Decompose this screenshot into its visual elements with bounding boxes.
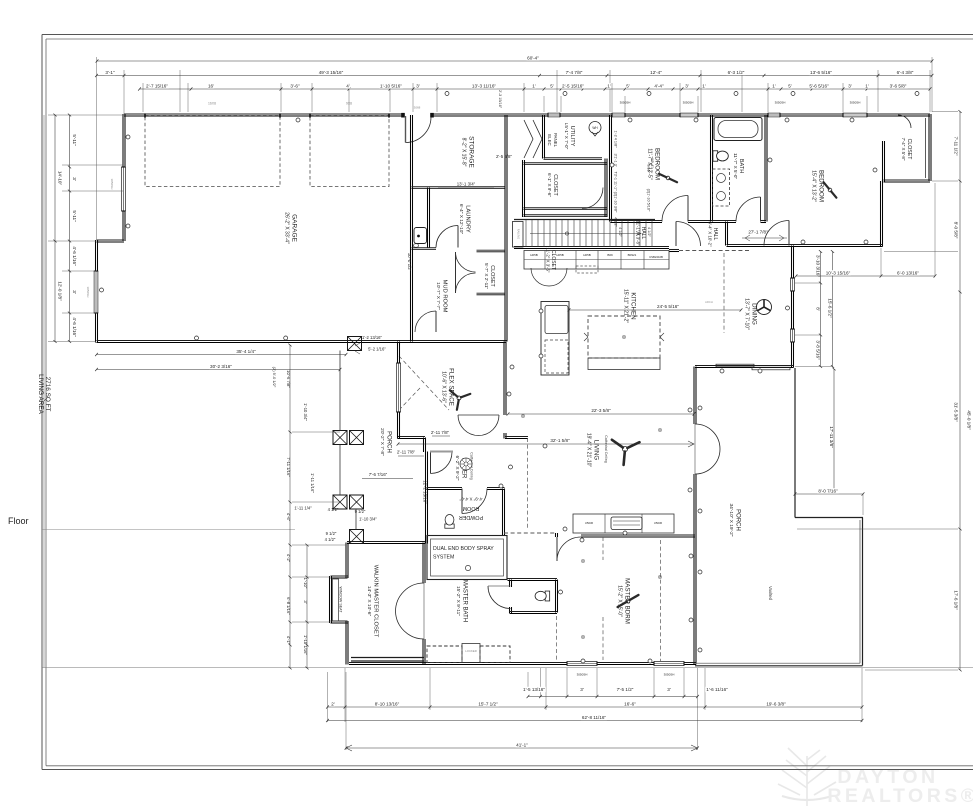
bottom dim row small	[528, 696, 698, 698]
svg-text:7'-4" X 5'-8": 7'-4" X 5'-8"	[901, 138, 906, 161]
foyer north wall stub	[505, 436, 528, 438]
svg-text:6'-0 13/16": 6'-0 13/16"	[897, 270, 919, 275]
walkin closet double doors	[396, 583, 425, 639]
svg-text:1': 1'	[607, 83, 611, 88]
utility west wall	[542, 115, 544, 159]
svg-text:4 1/2": 4 1/2"	[614, 217, 618, 227]
svg-text:32'-1 5/8": 32'-1 5/8"	[550, 438, 570, 443]
hall tiny dims column	[614, 130, 655, 237]
flex diagonal dashed	[399, 356, 449, 410]
dim row 2	[97, 75, 933, 77]
svg-text:3'-4" X 10'-2": 3'-4" X 10'-2"	[707, 221, 712, 247]
dim 10-3 and 6-0	[796, 275, 935, 277]
wc door arc	[488, 586, 511, 609]
porch right dim 8-0	[795, 493, 863, 495]
svg-text:17'-6 1/8": 17'-6 1/8"	[954, 590, 959, 610]
window seat bench	[333, 579, 339, 621]
living outlets	[499, 365, 692, 638]
dining side dim col a	[820, 252, 822, 367]
garage outlets	[100, 118, 301, 340]
flex ceiling fan	[457, 396, 461, 400]
svg-text:RAILING: RAILING	[517, 229, 521, 239]
svg-text:LIVING: LIVING	[593, 440, 600, 460]
walkin closet north wall	[347, 541, 425, 543]
svg-text:3068: 3068	[414, 106, 421, 110]
window tiny labels top	[620, 101, 861, 105]
dim 35-4	[97, 354, 347, 356]
svg-text:2'-5 5/8": 2'-5 5/8"	[496, 154, 513, 159]
svg-text:3': 3'	[580, 687, 584, 692]
svg-text:L5'-1" X 7'-0": L5'-1" X 7'-0"	[564, 123, 569, 150]
wc toilet	[535, 591, 550, 601]
svg-text:1': 1'	[772, 83, 776, 88]
hall closet north wall	[524, 162, 608, 164]
powder north wall east segment	[487, 487, 505, 489]
watermark tree logo	[778, 748, 836, 806]
svg-text:4'-6 1/16": 4'-6 1/16"	[72, 317, 77, 337]
porch right east edge lower	[862, 518, 864, 666]
dining side dim col b	[832, 252, 834, 367]
flex south wall	[398, 436, 426, 438]
kitchen island	[588, 316, 660, 358]
closet2 door arc	[898, 115, 911, 128]
bedroom1 south wall east segment	[688, 220, 712, 222]
garage/south wall of garage and flex top	[97, 340, 507, 342]
svg-text:1'-10 3/4": 1'-10 3/4"	[303, 403, 308, 421]
garage west wall lower	[95, 240, 97, 343]
svg-text:7'-5 1/2": 7'-5 1/2"	[617, 687, 634, 692]
svg-text:WH: WH	[592, 126, 598, 130]
mud hall door arc	[415, 311, 436, 332]
svg-text:12'-0 1/8": 12'-0 1/8"	[58, 281, 63, 301]
svg-text:6'-3 1/2": 6'-3 1/2"	[728, 70, 745, 75]
svg-text:USB2410B: USB2410B	[649, 255, 663, 259]
left dim extension lines	[48, 115, 124, 342]
svg-text:5'-7" X 2'-11": 5'-7" X 2'-11"	[484, 263, 489, 289]
svg-text:3': 3'	[72, 290, 77, 294]
powder east wall	[502, 489, 504, 536]
master bath vanity dashed	[427, 646, 462, 663]
bottom dim row 2	[328, 706, 863, 708]
exterior wall top west segment	[124, 113, 404, 115]
svg-text:GARAGE: GARAGE	[291, 214, 298, 242]
svg-text:WALKIN MASTER CLOSET: WALKIN MASTER CLOSET	[372, 565, 378, 638]
bedroom2 east wall	[880, 181, 882, 247]
house south wall	[349, 662, 696, 664]
bedroom2 ceiling fan	[828, 188, 832, 192]
svg-text:16X8: 16X8	[208, 102, 216, 106]
hall closet door arc	[582, 188, 603, 209]
svg-text:15'-6 1/2": 15'-6 1/2"	[828, 298, 833, 318]
bath south wall west segment	[712, 220, 737, 222]
bath tub	[714, 118, 762, 141]
porch right south edge	[695, 665, 863, 667]
svg-text:3050SH: 3050SH	[683, 101, 694, 105]
svg-text:(2)1'-10 3/8": (2)1'-10 3/8"	[614, 192, 618, 213]
dim row 3	[140, 88, 931, 90]
master bedroom north wall	[581, 534, 695, 536]
flex west window	[396, 363, 401, 412]
svg-text:B09: B09	[607, 253, 613, 257]
svg-text:1'-10 5/16": 1'-10 5/16"	[380, 83, 402, 88]
svg-text:2716 SQ FT: 2716 SQ FT	[44, 377, 51, 412]
dining side ext lines	[795, 283, 832, 367]
window seat bay west wall	[329, 576, 331, 623]
svg-text:7'-6 7/16": 7'-6 7/16"	[369, 472, 388, 477]
svg-text:7'-11 1/2": 7'-11 1/2"	[954, 136, 959, 155]
svg-text:12'-4": 12'-4"	[650, 70, 662, 75]
laundry south sub wall	[412, 247, 437, 249]
powder label	[459, 497, 483, 521]
window seat bay jog top	[331, 575, 348, 577]
flex entry door	[431, 452, 453, 474]
dim 22-3 5-8	[508, 413, 694, 415]
garage west wall upper	[122, 114, 124, 241]
hall closet west stub	[522, 160, 524, 217]
svg-text:11'-7" X 12'-5": 11'-7" X 12'-5"	[647, 148, 653, 179]
porch left edge line	[339, 351, 341, 431]
svg-text:4 1/2": 4 1/2"	[618, 227, 622, 237]
window dining east upper	[790, 278, 795, 291]
svg-text:26'-2" X 33'-4": 26'-2" X 33'-4"	[284, 212, 290, 244]
svg-text:3'-10 3/16": 3'-10 3/16"	[816, 255, 821, 277]
bedroom1 door arc	[662, 196, 688, 222]
utility south wall	[544, 157, 603, 159]
LIVING AREA label	[37, 374, 51, 415]
svg-text:1': 1'	[702, 83, 706, 88]
hall south wall	[669, 249, 679, 251]
svg-text:T2'-1 11'-1": T2'-1 11'-1"	[614, 172, 618, 192]
svg-text:FLEX SPACE: FLEX SPACE	[448, 368, 455, 406]
svg-text:5'-2 1/16": 5'-2 1/16"	[368, 347, 386, 352]
bath-bedroom2 wall	[764, 115, 766, 222]
svg-text:15'-4" X 13'-2": 15'-4" X 13'-2"	[811, 170, 817, 202]
mud closet walls	[477, 249, 506, 251]
porch left dims	[294, 473, 377, 536]
svg-text:Cathedral Ceiling: Cathedral Ceiling	[604, 435, 608, 463]
svg-text:4': 4'	[346, 83, 350, 88]
svg-text:MUD ROOM: MUD ROOM	[441, 280, 447, 313]
kitchen dining dashed ceiling line	[723, 253, 725, 333]
svg-text:MASTER BATH: MASTER BATH	[461, 580, 467, 622]
svg-text:10'-7" X 7'-7": 10'-7" X 7'-7"	[435, 282, 441, 310]
svg-text:BEDROOM: BEDROOM	[818, 170, 825, 202]
storage entry door jambs	[402, 113, 405, 117]
svg-text:1': 1'	[865, 83, 869, 88]
svg-text:3050SH: 3050SH	[664, 673, 675, 677]
flex east wall stub lower	[503, 433, 505, 439]
svg-text:DUAL END BODY SPRAY: DUAL END BODY SPRAY	[433, 546, 494, 552]
svg-text:30'-2 3/16": 30'-2 3/16"	[210, 364, 232, 369]
svg-text:KITCHEN: KITCHEN	[630, 292, 637, 319]
svg-text:31'-5 3/8": 31'-5 3/8"	[954, 402, 959, 422]
svg-text:9 1/2": 9 1/2"	[355, 509, 366, 514]
svg-text:15'-2" X 9'-11": 15'-2" X 9'-11"	[455, 586, 461, 616]
walkin closet east wall lower	[422, 639, 424, 665]
laundry door arc	[436, 226, 458, 248]
porch sliding door	[716, 364, 754, 367]
svg-text:B0921: B0921	[628, 253, 637, 257]
svg-text:(2)1'-10 5/16": (2)1'-10 5/16"	[647, 189, 651, 212]
laundry tub	[414, 228, 427, 244]
window dining east lower	[790, 329, 795, 342]
svg-text:11'-7" X 5'-0": 11'-7" X 5'-0"	[733, 153, 738, 179]
storage bifold doors	[524, 120, 542, 158]
svg-text:PORCH: PORCH	[734, 509, 740, 531]
svg-text:1'-2 13/16": 1'-2 13/16"	[362, 335, 382, 340]
svg-text:8'-10 13/16": 8'-10 13/16"	[375, 701, 400, 706]
stair north edge	[514, 219, 655, 221]
viewport clip line bottom	[42, 667, 973, 669]
bottom dim row total	[328, 720, 863, 722]
elec panel label	[547, 133, 558, 148]
svg-text:POWDER: POWDER	[459, 514, 483, 520]
left dim col 1	[54, 115, 56, 342]
bottom dim extension lines	[328, 668, 863, 750]
closet top-right east wall	[928, 114, 930, 181]
closet2 shelf lines	[925, 118, 927, 178]
svg-text:3'-8 5/16": 3'-8 5/16"	[816, 340, 821, 360]
dim 24-5 5-16	[569, 309, 741, 311]
kitchen fridge counter	[541, 302, 569, 376]
svg-text:35'-4 1/4": 35'-4 1/4"	[236, 349, 256, 354]
bath toilet	[713, 151, 728, 161]
svg-text:60'-4": 60'-4"	[527, 55, 539, 60]
window top wall utility	[548, 113, 560, 118]
svg-text:45'-0 1/8": 45'-0 1/8"	[967, 410, 972, 430]
top dimension extension lines	[97, 57, 933, 240]
svg-text:H05B: H05B	[556, 253, 564, 257]
hall south wall cased opening dashed	[679, 250, 750, 252]
foyer ceiling medallion	[460, 458, 472, 470]
svg-text:3050SH: 3050SH	[86, 287, 90, 298]
right dim col	[959, 112, 961, 671]
closet west stub wall	[882, 141, 884, 182]
master door arc	[557, 537, 581, 561]
window top wall 2	[680, 113, 698, 118]
living-master east wall upper	[693, 367, 695, 425]
kitchen sink dashed	[576, 266, 598, 273]
svg-text:Floor: Floor	[8, 516, 29, 526]
long extension line mid-left	[42, 529, 295, 531]
svg-text:19'-6 3/8": 19'-6 3/8"	[766, 701, 786, 706]
svg-text:49'-3 15/16": 49'-3 15/16"	[319, 70, 344, 75]
svg-text:H05B: H05B	[530, 253, 538, 257]
powder toilet	[445, 514, 454, 528]
svg-text:1'-11 1/4": 1'-11 1/4"	[294, 506, 312, 511]
powder door arc	[462, 489, 487, 514]
svg-text:5': 5'	[550, 83, 554, 88]
svg-text:15'-11" X 21'-2": 15'-11" X 21'-2"	[623, 289, 629, 323]
porch small dims 4s	[325, 507, 339, 542]
garage door dashed outline 2	[310, 116, 389, 187]
svg-text:16': 16'	[208, 83, 214, 88]
living french doors to porch	[695, 424, 720, 474]
mud closet double doors	[456, 252, 476, 293]
svg-text:1'-2 4 1/8": 1'-2 4 1/8"	[614, 130, 618, 148]
foyer west wall / powder west wall	[425, 452, 427, 544]
svg-text:6'-1" X 9'-6": 6'-1" X 9'-6"	[547, 173, 552, 197]
walkin closet south double wall	[351, 657, 424, 659]
dim 30-2	[97, 369, 341, 371]
svg-text:62'-8 11/16": 62'-8 11/16"	[582, 715, 607, 720]
svg-text:27'-1 7/8": 27'-1 7/8"	[748, 230, 768, 235]
svg-text:5'-6 5/16": 5'-6 5/16"	[809, 83, 829, 88]
svg-text:24'-5 5/16": 24'-5 5/16"	[657, 304, 679, 309]
bath vanity	[713, 169, 730, 206]
dim row overall 60-4	[97, 60, 932, 62]
master closet side dim lines	[289, 345, 291, 668]
shower enclosure	[427, 536, 507, 580]
master closet west wall upper	[345, 543, 347, 579]
storage-laundry wall	[412, 186, 506, 188]
master dashed ceiling lines	[556, 616, 558, 662]
svg-text:LIVING AREA: LIVING AREA	[37, 374, 44, 415]
svg-text:3050SH: 3050SH	[620, 101, 631, 105]
garage door jamb stubs	[145, 113, 389, 117]
living-master east wall lower	[693, 474, 695, 665]
exterior wall top east segment	[431, 113, 930, 115]
storage east wall	[504, 115, 506, 342]
svg-text:3': 3'	[848, 83, 852, 88]
svg-text:4 1/2": 4 1/2"	[325, 537, 336, 542]
svg-text:13'-1 3/4": 13'-1 3/4"	[457, 182, 476, 187]
dining north wall	[727, 244, 883, 246]
svg-text:10'-3 15/16": 10'-3 15/16"	[826, 270, 851, 275]
garage east wall	[410, 115, 412, 342]
living media wall cabinets	[573, 514, 674, 533]
window south wall master a	[567, 661, 597, 666]
living ceiling fan	[622, 446, 627, 451]
wc north wall	[508, 578, 558, 580]
svg-text:3050SH: 3050SH	[110, 179, 114, 190]
master closet side dims	[286, 370, 308, 655]
svg-text:14'-3" X 10'-6": 14'-3" X 10'-6"	[366, 586, 372, 617]
bath door arc	[736, 197, 761, 222]
dining ceiling fan	[757, 300, 772, 315]
svg-text:1'-10 3/4": 1'-10 3/4"	[359, 517, 377, 522]
water heater	[589, 122, 601, 134]
svg-text:10'-0 1/2": 10'-0 1/2"	[407, 253, 412, 272]
svg-text:LAUNDRY: LAUNDRY	[464, 205, 470, 233]
flex double doors	[458, 415, 499, 436]
dim 32-1 5-8	[398, 443, 694, 445]
garage door dashed outline 1	[145, 116, 280, 187]
porch right east edge upper	[794, 368, 796, 518]
utility east wall / bedroom1 west wall	[609, 115, 611, 222]
wc west wall lower stub	[509, 607, 511, 613]
wc east wall	[555, 580, 557, 613]
svg-text:1'-5 13/16": 1'-5 13/16"	[523, 687, 545, 692]
svg-text:H05B: H05B	[583, 253, 591, 257]
svg-text:13'-6 5/16": 13'-6 5/16"	[810, 70, 832, 75]
svg-text:U5036: U5036	[585, 521, 594, 525]
viewport clip line left	[43, 115, 45, 668]
svg-text:3': 3'	[685, 83, 689, 88]
svg-text:PORCH: PORCH	[385, 431, 391, 453]
closet bottom wall	[884, 179, 931, 181]
flex west wall	[397, 342, 399, 439]
svg-text:16'-6": 16'-6"	[624, 701, 636, 706]
right dim extension lines	[797, 112, 958, 671]
svg-text:6'-2" X 9'-2": 6'-2" X 9'-2"	[454, 456, 460, 481]
hall closet south wall band	[524, 207, 608, 209]
svg-text:STORAGE: STORAGE	[468, 136, 475, 168]
stair rail line	[530, 233, 640, 235]
svg-text:3'-6": 3'-6"	[290, 83, 300, 88]
laundry west sub wall	[427, 188, 429, 249]
svg-text:8'-0 7/16": 8'-0 7/16"	[818, 488, 838, 493]
svg-text:3050SH: 3050SH	[775, 101, 786, 105]
svg-text:3'-6 5/8": 3'-6 5/8"	[890, 83, 907, 88]
svg-text:3'-1": 3'-1"	[105, 70, 115, 75]
svg-text:5': 5'	[788, 83, 792, 88]
master closet west wall lower	[345, 621, 347, 665]
stair landing rect	[513, 222, 524, 248]
bedroom2 door arc	[764, 221, 789, 246]
understair closet doors	[531, 268, 567, 286]
svg-text:SYSTEM: SYSTEM	[433, 555, 454, 561]
svg-text:4'-4": 4'-4"	[654, 83, 664, 88]
porch outlets	[698, 369, 762, 652]
svg-text:1'-6 11/16": 1'-6 11/16"	[706, 687, 728, 692]
storage entry door leaf and arc	[405, 116, 407, 143]
svg-text:4 1/2": 4 1/2"	[647, 227, 651, 237]
foyer dims	[362, 430, 450, 504]
svg-text:15'-7 1/2": 15'-7 1/2"	[478, 701, 498, 706]
wc west wall stub	[509, 580, 511, 588]
flex-foyer step wall	[423, 438, 425, 453]
porch north wall	[695, 365, 794, 367]
bottom dim row 41	[346, 747, 698, 749]
svg-text:5': 5'	[626, 83, 630, 88]
garage wall jog	[97, 239, 125, 241]
svg-text:4 1/2": 4 1/2"	[328, 507, 339, 512]
left dim col 2	[69, 115, 71, 342]
svg-text:Vaulted: Vaulted	[768, 586, 773, 601]
svg-text:2'-3 15/16": 2'-3 15/16"	[498, 90, 502, 109]
svg-text:8'-2" X 15'-8": 8'-2" X 15'-8"	[461, 138, 467, 167]
svg-text:3': 3'	[667, 687, 671, 692]
flex east wall	[503, 342, 505, 416]
svg-text:1': 1'	[532, 83, 536, 88]
stair treads	[526, 220, 652, 247]
svg-text:9 1/2": 9 1/2"	[326, 531, 337, 536]
powder north wall west segment	[427, 487, 463, 489]
svg-text:ARCH: ARCH	[705, 300, 713, 304]
master bedroom north wall door jamb	[555, 533, 557, 537]
closet side dim extensions	[292, 432, 346, 622]
svg-text:41'-1": 41'-1"	[516, 742, 528, 747]
svg-text:19'-4" X 21'-10": 19'-4" X 21'-10"	[586, 433, 592, 468]
svg-text:15'-2" X 15'-0": 15'-2" X 15'-0"	[617, 585, 623, 617]
porch right step edge	[795, 517, 863, 519]
svg-text:17'-11 3/8": 17'-11 3/8"	[829, 426, 834, 448]
bath south wall east segment	[761, 220, 767, 222]
svg-text:WINDOW SEAT: WINDOW SEAT	[339, 587, 343, 614]
window garage west upper	[121, 167, 126, 211]
svg-text:11'-1" X 3'-8": 11'-1" X 3'-8"	[635, 221, 640, 246]
svg-text:2': 2'	[331, 701, 335, 706]
svg-text:5'-11": 5'-11"	[72, 134, 77, 146]
svg-text:ELEC: ELEC	[547, 134, 552, 145]
window south wall master b	[654, 661, 684, 666]
stair south wall	[514, 246, 669, 248]
svg-text:34'-10" X 19'-2": 34'-10" X 19'-2"	[728, 504, 734, 537]
bedroom outlets	[445, 92, 919, 311]
wc south wall	[510, 611, 558, 613]
bedroom1 ceiling fan	[666, 176, 670, 180]
